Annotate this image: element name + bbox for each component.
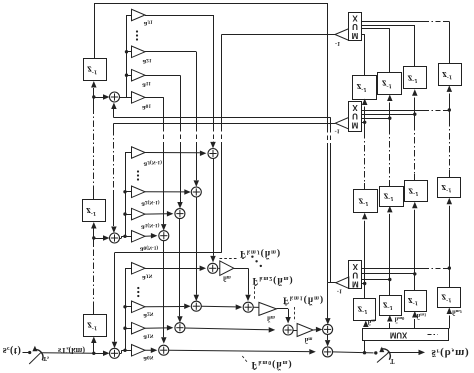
value label -1 (U3) [337, 287, 342, 294]
sampler switch SW1 (period Ts) [32, 346, 37, 352]
svg-text:M: M [352, 279, 359, 288]
wire summer M0 down into summer N0 [163, 241, 165, 338]
wire node B2 to Z2 input [93, 227, 95, 238]
value label h~m0 [395, 316, 405, 323]
wire U3 output to merged vertical [328, 282, 336, 284]
break marks inside MUX4 [428, 334, 438, 336]
summer N2 (bank N tap) [191, 301, 201, 311]
wire bus stubs to amplifiers [125, 214, 132, 216]
delay box FB (z^-1 row3) [405, 291, 427, 312]
summer MJ (bank N-1 tap) [208, 149, 218, 159]
wire MUX3 input line D [362, 283, 365, 285]
amplifier a1N [132, 322, 146, 334]
delay box FA (z^-1 row3) [438, 288, 461, 308]
net label s~r(b,m) output [432, 347, 470, 359]
delay box ED (z^-1 row2) [354, 190, 378, 213]
delay box EC (z^-1 row2) [380, 187, 404, 207]
wire HJ output down into summer P2 [234, 268, 248, 270]
wire into summer S1 [94, 97, 107, 99]
ellipsis dots bank N-1 [137, 170, 139, 172]
leader line to F^kmJ label [220, 258, 238, 260]
svg-text:-1: -1 [335, 40, 340, 47]
wire bank 1 input bus [126, 15, 128, 97]
net label F^kmJ(h~m) [240, 248, 281, 261]
summer S3 (bank N input summer) [110, 348, 120, 358]
value label h~m [368, 318, 376, 325]
node bankN bus taps [123, 327, 126, 330]
wire MUX3 input line B [362, 273, 415, 275]
value label a1(N-1) [141, 222, 160, 232]
wire column C down to EC (dash-dot) [389, 118, 391, 128]
node bank1 bus taps [125, 74, 128, 77]
wire a1(N-1) output into summer M1 [145, 213, 167, 215]
wire MUX3 input line C [362, 279, 390, 281]
svg-text:X: X [353, 262, 359, 271]
wire MUX2 input line B [362, 114, 415, 116]
wire up into EC input [389, 214, 391, 280]
wire column D down to FD [364, 284, 366, 299]
wire S1 output to bank 1 bus [120, 97, 132, 99]
wire a2N output into summer N2 [145, 306, 184, 308]
wire U1 output across top [222, 34, 336, 36]
wire summer M2 down into summer N2 [196, 197, 198, 295]
wire MUX4 to FD input (weight h~m) [365, 327, 367, 330]
wire MUX2 input line D [362, 122, 365, 124]
wire into summer S3 [94, 353, 107, 355]
wire node B3 to Z3 input [93, 343, 95, 353]
svg-text:U: U [352, 112, 358, 121]
svg-text:-1: -1 [335, 128, 340, 135]
node B1 [92, 95, 95, 98]
net label sc(t) input [3, 345, 21, 356]
ellipsis dots output cascade [251, 256, 253, 258]
svg-text:M: M [352, 120, 359, 129]
amplifier H1 (h~m weight, tap 1) [297, 324, 313, 337]
value label a21 [142, 57, 151, 67]
node column B at MUX2 line [413, 113, 416, 116]
wire bus stubs to amplifiers [127, 75, 132, 77]
wire MUX1 inverter output down to bank N [221, 35, 223, 128]
node bankN bus tap a0 [123, 349, 126, 352]
amplifier a2N [132, 301, 146, 313]
wire line1 up into summer S1 [113, 109, 115, 118]
wire into summer M2 [196, 143, 198, 180]
wire MUX4 to FB input (weight h~m1) [414, 319, 416, 329]
inverter U2 (-1 gain at MUX2) [335, 118, 348, 129]
node sampler pivot (input) [28, 351, 31, 354]
wire summer M1 down into summer N1 [179, 218, 181, 316]
delay box FD (z^-1 row3) [354, 299, 376, 321]
amplifier aJ1 [132, 9, 146, 21]
wire S3 output to bank N bus [120, 353, 122, 355]
amplifier a0(N-1) [132, 231, 146, 243]
summer N0 (bank N tap) [159, 345, 169, 355]
node bankN-1 bus tap a0 [123, 235, 126, 238]
wire input to sampler [23, 352, 29, 354]
wire column A down to EA (dash-dot) [449, 110, 451, 120]
svg-text:T: T [390, 357, 395, 364]
node column D at MUX2 line [363, 121, 366, 124]
wire a11 output to tap-1 chain [145, 75, 180, 77]
svg-text:U: U [352, 22, 358, 31]
wire into summer MJ [213, 142, 215, 143]
delay box FC (z^-1 row3) [380, 296, 402, 316]
wire up into EB input [414, 210, 416, 274]
summer N1 (bank N tap) [175, 323, 185, 333]
wire Z2 output to node B1 (dash-dot break) [93, 192, 95, 200]
value label h~m (amp H1) [305, 335, 313, 343]
net label F^km1(h~m) [283, 294, 324, 307]
wire a21 output to tap-2 chain [145, 51, 196, 53]
value label -1 (U2) [335, 128, 340, 135]
delay box EB (z^-1 row2) [405, 181, 428, 202]
ellipsis dots bank N [137, 287, 139, 289]
wire summer P2 output to amplifier H2 [253, 306, 259, 308]
wire a01 output to tap-0 chain [145, 97, 164, 99]
svg-text:MUX: MUX [390, 331, 408, 340]
wire H2 output down into summer P1 [276, 308, 288, 310]
net label sTs(km) sampled input [58, 345, 85, 355]
summer S1 (bank 1 input summer) [110, 92, 120, 102]
amplifier a11 [132, 69, 146, 81]
delay box DB (z^-1 row1) [404, 67, 427, 89]
amplifier a01 [132, 92, 146, 104]
wire S2 output to bank N-1 bus [120, 238, 122, 240]
delay box DD (z^-1 row1) [353, 76, 377, 100]
node output junction [363, 351, 366, 354]
value label a01 [142, 103, 151, 113]
wire down into summer S3 [114, 253, 116, 342]
wire summer N1 output into summer P1 [185, 328, 269, 330]
mux MUX3 [349, 261, 362, 289]
net label F^km0(h~m) [252, 359, 293, 372]
wire MUX3 input line A (dash-dot break) [362, 268, 424, 270]
value label Ts (SW1) [43, 354, 49, 362]
wire delay DB output to MUX1 [362, 25, 415, 27]
wire summer N2 output into summer P2 [201, 305, 236, 308]
summer P1 (cascade) [283, 325, 293, 335]
wire feedback line1 (chain output broadcast) [114, 117, 331, 119]
value label h~m1 [417, 312, 427, 319]
wire MUX4 bottom to output junction [364, 341, 366, 353]
wire Z1 output up [94, 3, 96, 58]
summer C1 (output combiner) [323, 324, 333, 334]
svg-text:X: X [352, 13, 358, 22]
leader line to F^km0 label [242, 356, 247, 363]
value label h~m (amp H2) [267, 314, 275, 322]
delay box DA (z^-1 row1) [439, 64, 462, 86]
value label a1N [143, 333, 153, 343]
node column C at MUX2 line [388, 117, 391, 120]
wire a0(N-1) output into summer M0 [145, 235, 151, 237]
value label a2(N-1) [141, 199, 160, 209]
wire MUX4 to FA input (weight h~mJ) [449, 316, 451, 329]
wire a1N output into summer N1 [145, 327, 167, 329]
wire up into ED input [364, 221, 366, 284]
svg-text:M: M [352, 31, 359, 40]
wire top bus to right column [94, 3, 327, 5]
value label T (SW2) [390, 357, 395, 364]
wire up into DA input [449, 94, 451, 111]
wire H1 output into summer C1 [313, 329, 316, 331]
amplifier H2 (h~m weight, tap 2) [259, 302, 277, 315]
value label -1 (U1) [335, 40, 340, 47]
value label h~mJ [452, 308, 462, 315]
wire summer MJ down into summer NJ [213, 158, 215, 256]
value label aJN [142, 273, 152, 283]
inverter U1 (-1 gain at MUX1) [335, 29, 349, 40]
node B3 [92, 352, 95, 355]
node column D at MUX3 line [363, 282, 366, 285]
summer P2 (cascade) [243, 302, 253, 312]
summer M1 (bank N-1 tap) [175, 209, 185, 219]
wire merged vertical into summer C1 [327, 283, 329, 319]
svg-text:X: X [352, 103, 358, 112]
mux MUX1 [349, 13, 362, 41]
wire C1 down into summer C2 [327, 334, 329, 340]
wire up into EA input [449, 206, 451, 268]
wire column B down to FB [414, 274, 416, 290]
node bankN-1 bus taps [123, 212, 126, 215]
wire delay DA output to MUX1 (dash-dot break) [362, 21, 425, 23]
delay box Z3 (z^-1, bank N) [84, 315, 107, 337]
wire MUX2 input line C [362, 118, 390, 120]
sampler switch SW2 (period T) [381, 349, 391, 360]
wire vertical B from line1 down [330, 118, 332, 128]
value label a0N [143, 354, 153, 364]
wire into summer M0 [163, 143, 165, 224]
value label a0(N-1) [140, 245, 159, 255]
wire a0N output into summer N0 [145, 349, 151, 351]
node B2 [92, 236, 95, 239]
wire delay DD output to MUX1 [362, 34, 365, 36]
value label a2N [143, 311, 153, 321]
inverter U3 (-1 gain at MUX3) [336, 277, 349, 288]
leader line to F^km1 label [294, 307, 296, 322]
summer M2 (bank N-1 tap) [191, 187, 201, 197]
wire bus stubs to amplifiers [125, 328, 132, 330]
value label aJ(N-1) [144, 159, 163, 169]
wire column D down to ED (dash-dot) [364, 122, 366, 132]
wire C2 output to sampler [333, 352, 374, 353]
wire chain dashed break segments [163, 127, 165, 143]
summer NJ (bank N tap) [208, 263, 218, 273]
amplifier a1(N-1) [132, 208, 146, 220]
wire line2 from inverter U2 output [114, 123, 335, 125]
node column A at MUX3 line [448, 266, 451, 269]
wire bank N-1 input bus [125, 153, 127, 237]
wire column C down to FC [389, 280, 391, 296]
wire into summer M1 [180, 143, 182, 202]
wire delay DC output to MUX1 [362, 28, 390, 30]
wire MUX4 to FC input (weight h~m0) [389, 323, 391, 329]
wire up into DB input [414, 98, 416, 115]
leader line to F^km2 label [254, 287, 256, 300]
delay box EA (z^-1 row2) [438, 178, 461, 198]
wire a2(N-1) output into summer M2 [145, 191, 185, 193]
mux MUX4 [363, 329, 449, 341]
wire sampler to output arrow [388, 352, 419, 354]
node column B at MUX3 line [413, 272, 416, 275]
summer S2 (bank N-1 input summer) [110, 233, 120, 243]
amplifier a0N [132, 345, 146, 357]
value label aJ1 [144, 19, 153, 29]
node sampler pivot (output) [374, 351, 377, 354]
wire column A down to FA [449, 268, 451, 287]
wire node B1 to Z1 input [93, 88, 95, 97]
node column C at MUX3 line [388, 278, 391, 281]
wire Z3 output to node B2 (dash-dot break) [93, 308, 95, 314]
amplifier a2(N-1) [132, 186, 146, 198]
net label F^km2(h~m) [253, 275, 294, 288]
wire sampler to node B3 [41, 352, 94, 355]
wire aJ1 output to tap-J chain [145, 15, 213, 17]
wire bank N input bus [125, 268, 127, 350]
wire across to summer S3 column [115, 252, 222, 254]
delay box DC (z^-1 row1) [378, 73, 402, 95]
wire aJN output into summer NJ [145, 268, 200, 270]
wire aJ(N-1) output into summer MJ [145, 152, 200, 154]
wire up into DD input [364, 107, 366, 123]
wire into summer S2 [94, 238, 107, 240]
amplifier aJN [132, 263, 146, 275]
value label h~m (amp HJ) [223, 273, 231, 281]
amplifier HJ (h~m weight, tap J) [220, 261, 234, 276]
svg-text:U: U [352, 271, 358, 280]
wire vertical A from top bus down [327, 3, 329, 128]
node column A at MUX2 line [448, 108, 451, 111]
value label a11 [142, 80, 151, 90]
svg-text:sc(t): sc(t) [3, 345, 21, 356]
ellipsis dots bank 1 [136, 30, 138, 32]
mux MUX2 [349, 102, 362, 132]
svg-text:-1: -1 [337, 287, 342, 294]
amplifier a21 [132, 46, 146, 58]
wire column B down to EB (dash-dot) [414, 114, 416, 124]
summer C2 (output combiner) [323, 347, 333, 357]
wire MUX2 input line A (dash-dot break) [362, 110, 425, 112]
delay box Z2 (z^-1, bank N-1) [83, 200, 106, 222]
summer M0 (bank N-1 tap) [159, 231, 169, 241]
amplifier aJ(N-1) [132, 147, 146, 159]
wire line2 down into summer S2 [113, 123, 115, 129]
wire summer P1 output to amplifier H1 [293, 330, 297, 332]
delay box Z1 (z^-1, bank 1) [84, 59, 107, 81]
svg-text:sTs(km): sTs(km) [58, 345, 85, 355]
wire up into DC input [389, 103, 391, 119]
wire summer N0 output into summer C2 [169, 350, 310, 351]
